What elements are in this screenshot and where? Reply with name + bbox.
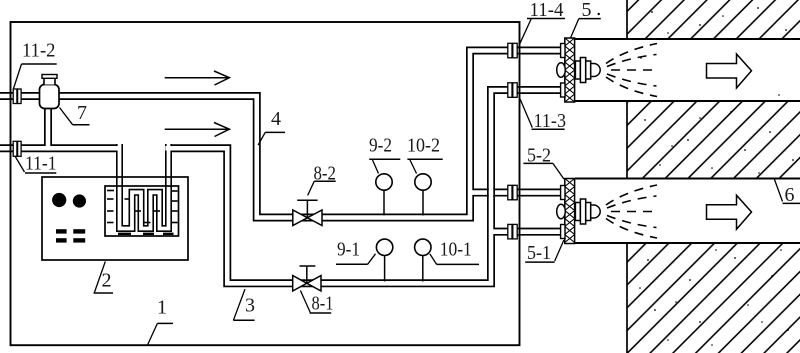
wire inlet A horizontal to device 7 then across top, down, valve line S1, riser, to top burner top port (0, 51, 565, 218)
burner plate 5 (top) (565, 38, 575, 102)
wire branch F3 to lower burner top port (470, 189, 565, 197)
cell liquid level dashes (107, 191, 178, 234)
burner port brackets lower (561, 186, 565, 239)
burner port brackets top (561, 44, 565, 98)
burner nozzle assembly top (557, 58, 601, 83)
svg-text:2: 2 (102, 270, 112, 292)
spray fan lower (606, 185, 658, 238)
valve 8-1 (293, 266, 321, 291)
box2 battery bars (56, 229, 85, 242)
wall speckles (639, 7, 794, 346)
label 4 (258, 108, 285, 145)
generator box 2 (42, 177, 188, 260)
label 10-1 (430, 239, 479, 265)
wall hatched section bottom (627, 243, 800, 353)
label 11-3 (520, 98, 566, 132)
union fitting 11-1 (13, 141, 21, 156)
union fitting 11-3 (508, 83, 517, 98)
label 5 (571, 0, 601, 38)
electrolyzer serpentine tube (120, 144, 169, 229)
svg-text:5-1: 5-1 (527, 242, 551, 264)
wire branch F4 to lower burner bottom port (491, 228, 565, 236)
svg-text:10-2: 10-2 (407, 135, 440, 157)
wire cell right outlet to S2 valve line, riser 2, to top burner bottom port (165, 90, 565, 283)
label 5-1 (525, 240, 564, 264)
burner nozzle assembly lower (557, 199, 601, 224)
electrolyzer cell tank (105, 186, 179, 236)
svg-text:7: 7 (77, 102, 87, 124)
union fitting 11-2 (13, 89, 21, 104)
label 5-2 (523, 145, 564, 180)
label 7 (60, 102, 90, 125)
duct 2 walls (575, 179, 800, 244)
flow arrow upper (165, 71, 230, 85)
union fitting on F3 (508, 185, 517, 200)
gauge 10-2 (415, 174, 431, 216)
wire from device 7 down to inlet B line (44, 104, 52, 148)
svg-text:9-2: 9-2 (369, 135, 392, 157)
svg-text:11-1: 11-1 (25, 153, 57, 175)
wire: all supply pipes black outer strokes (0, 51, 565, 284)
label 11-1 (16, 153, 57, 175)
valve 8-2 (293, 200, 322, 225)
svg-text:4: 4 (271, 108, 281, 130)
label 9-1 (336, 239, 376, 265)
label 8-2 (308, 163, 336, 196)
label 6 (775, 180, 800, 207)
wall hatched section middle (627, 101, 800, 179)
wire riser2 continuity across F3 crossing (488, 188, 494, 197)
svg-text:3: 3 (245, 295, 255, 317)
gauge 10-1 (415, 239, 431, 281)
label 11-2 (14, 40, 57, 89)
label 10-2 (407, 135, 443, 174)
union fitting on F4 (508, 224, 517, 239)
wall hatched section top (627, 0, 800, 39)
svg-text:11-2: 11-2 (22, 40, 56, 62)
wire inlet B horizontal 11-1 line (0, 144, 121, 152)
spray fan top (606, 44, 658, 97)
label 9-2 (369, 135, 400, 174)
burner plate lower (565, 179, 575, 244)
label 3 (233, 289, 255, 320)
duct 1 walls (575, 39, 800, 101)
svg-text:10-1: 10-1 (440, 239, 472, 261)
label 1 (148, 297, 174, 346)
union fitting 11-4 (508, 43, 517, 58)
gauge 9-2 (376, 174, 392, 216)
svg-text:8-1: 8-1 (312, 293, 334, 315)
enclosure box 1 (11, 22, 520, 345)
label 8-1 (300, 291, 333, 315)
box2 indicator circles (52, 193, 66, 207)
label 11-4 (520, 0, 565, 43)
svg-text:1: 1 (157, 297, 167, 319)
svg-text:9-1: 9-1 (337, 239, 360, 261)
wire white cores (double-line pipes) (0, 51, 566, 284)
duct arrow top (707, 54, 752, 88)
label 2 (94, 262, 114, 294)
flow arrow lower (165, 123, 230, 137)
duct arrow lower (707, 195, 752, 229)
device 7 body (40, 75, 60, 109)
gauge 9-1 (376, 239, 392, 281)
